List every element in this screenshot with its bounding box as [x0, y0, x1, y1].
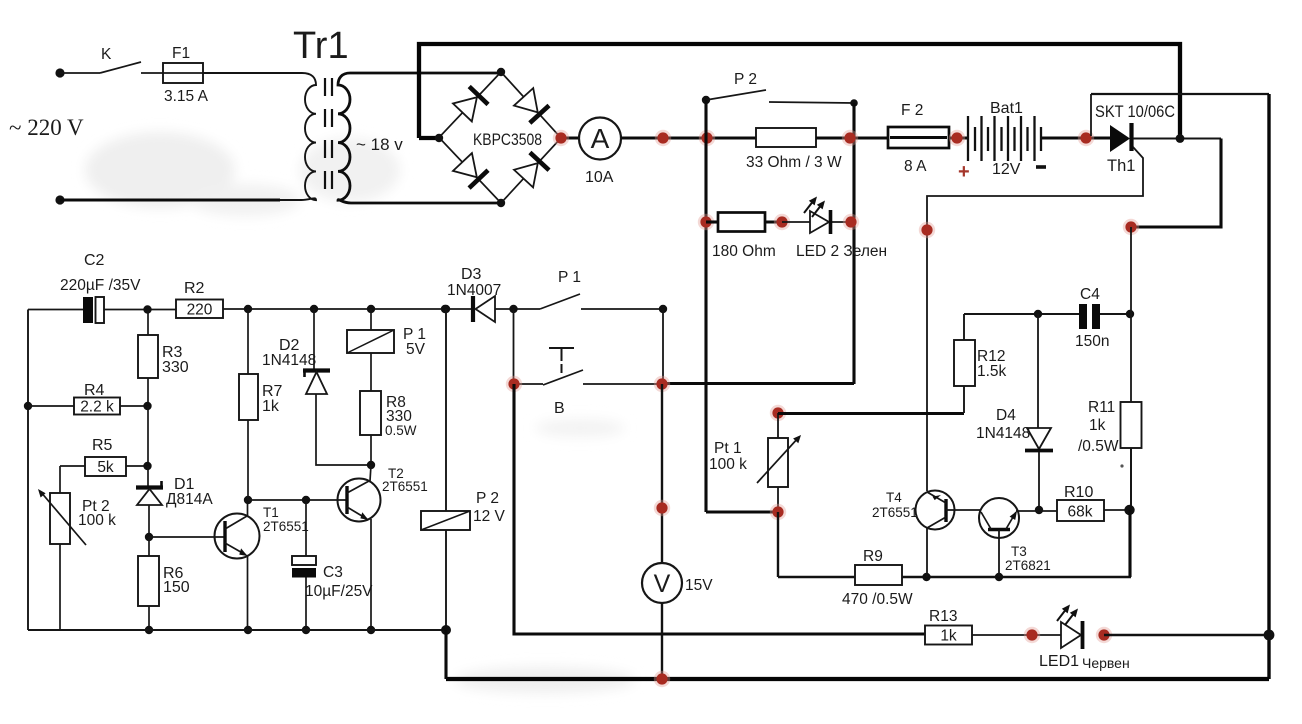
wire junction down to R9 line — [1128, 510, 1131, 577]
node D3 right — [509, 305, 517, 313]
pushbutton B — [514, 383, 543, 385]
svg-text:V: V — [654, 570, 671, 598]
svg-text:B: B — [554, 400, 565, 417]
svg-text:8 A: 8 A — [904, 158, 927, 175]
resistor 33 Ohm / 3 W — [756, 128, 816, 147]
node D4 bottom junction — [1035, 506, 1043, 514]
svg-text:~ 18 v: ~ 18 v — [356, 135, 403, 154]
node D3 left — [441, 305, 449, 313]
relay coil P2 12V — [445, 309, 447, 511]
svg-text:R11: R11 — [1088, 399, 1115, 416]
wire LED1 to right rail — [1104, 634, 1269, 636]
node rail to bottom bus — [441, 625, 451, 635]
node P1 right corner — [659, 305, 667, 313]
node junction (red) — [842, 130, 858, 146]
svg-text:5V: 5V — [406, 341, 426, 358]
wire ammeter to R 33ohm — [621, 136, 756, 139]
svg-text:/0.5W: /0.5W — [1078, 438, 1119, 455]
svg-text:1k: 1k — [1089, 417, 1106, 434]
voltmeter V 15V — [642, 563, 682, 603]
node loop end (red) — [1123, 219, 1139, 235]
svg-text:D3: D3 — [461, 266, 482, 283]
wire negative rail to bridge left — [419, 136, 438, 140]
transistor T1 2T6551 — [215, 514, 260, 559]
node wire (red) — [655, 130, 671, 146]
transistor T2 2T6551 — [338, 479, 381, 522]
svg-text:0.5W: 0.5W — [385, 423, 417, 438]
node B left (red) — [506, 376, 522, 392]
wire R13 to LED1 — [972, 634, 1061, 636]
svg-text:F1: F1 — [172, 45, 190, 62]
wire down to bottom bus — [444, 630, 447, 679]
switch P1 contact — [540, 294, 580, 309]
node R7 top — [244, 305, 252, 313]
bridge diode upper-right — [514, 88, 549, 123]
switch K — [100, 62, 141, 73]
capacitor C3 10uF/25V — [305, 500, 307, 556]
node gate wire (red) — [919, 222, 935, 238]
svg-text:SKT 10/06C: SKT 10/06C — [1095, 103, 1175, 121]
svg-text:1N4148: 1N4148 — [262, 352, 316, 369]
resistor R12 1.5k — [963, 386, 965, 413]
node C2/R2/R3 junction — [143, 305, 151, 313]
svg-text:R9: R9 — [863, 548, 883, 565]
svg-text:LED 2 Зелен: LED 2 Зелен — [796, 243, 887, 260]
svg-text:R2: R2 — [184, 280, 205, 297]
wire D3 node down to B — [513, 309, 515, 383]
wire bottom rail left block — [28, 629, 446, 631]
svg-text:150: 150 — [163, 579, 190, 596]
wire C4 right to node — [1100, 313, 1131, 315]
svg-text:10A: 10A — [585, 169, 614, 186]
wire voltmeter to bottom rail — [661, 603, 663, 679]
svg-text:10µF/25V: 10µF/25V — [305, 583, 373, 600]
wire top negative rail — [419, 44, 1180, 139]
node right rail junction — [1264, 630, 1275, 641]
transformer Tr1 secondary winding — [338, 73, 501, 203]
thyristor Th1 SKT 10/06C — [1110, 125, 1130, 152]
svg-text:F 2: F 2 — [901, 102, 923, 119]
wire left vertical rail — [27, 310, 29, 631]
switch P2 — [702, 96, 710, 104]
bridge diode lower-right — [514, 152, 549, 187]
node C4 right junction — [1126, 310, 1134, 318]
node LED1 left (red) — [1024, 627, 1040, 643]
wire red node down to C4 node — [1130, 227, 1132, 314]
relay coil P1 5V — [370, 309, 372, 330]
svg-text:1k: 1k — [940, 628, 957, 645]
svg-text:1k: 1k — [262, 398, 280, 415]
wire bridge plus to ammeter — [561, 136, 579, 139]
svg-text:330: 330 — [162, 359, 189, 376]
node voltmeter wire (red) — [654, 500, 670, 516]
svg-text:R4: R4 — [84, 382, 105, 399]
node R4 left — [24, 402, 32, 410]
svg-text:R5: R5 — [92, 437, 113, 454]
fuse F2 8A — [888, 127, 949, 148]
resistor R7 1k — [247, 309, 249, 374]
node T1 emitter bottom — [244, 626, 252, 634]
node P1 coil top — [367, 305, 375, 313]
zener diode D2 1N4148 — [313, 309, 315, 369]
svg-text:100 k: 100 k — [709, 456, 747, 473]
node R5/D1 junction — [143, 462, 151, 470]
svg-text:68k: 68k — [1068, 504, 1093, 521]
svg-text:2T6551: 2T6551 — [263, 519, 309, 534]
svg-text:1.5k: 1.5k — [977, 363, 1007, 380]
node D2/R8/T2 junction — [367, 461, 375, 469]
svg-text:180 Ohm: 180 Ohm — [712, 243, 776, 260]
node (red) — [774, 214, 790, 230]
fuse F1 3.15A — [163, 63, 203, 83]
wire down to R5 junction — [147, 406, 149, 466]
svg-text:220µF /35V: 220µF /35V — [60, 277, 141, 294]
node junction P2 branch (red) — [699, 130, 715, 146]
transistor T4 2T6551 — [916, 491, 955, 530]
wire vertical left branch — [704, 100, 707, 512]
zener diode D1 D814A — [147, 466, 149, 486]
svg-text:Д814А: Д814А — [166, 491, 213, 508]
svg-text:2T6821: 2T6821 — [1005, 558, 1051, 573]
svg-text:R13: R13 — [929, 608, 957, 625]
potentiometer Pt1 100k — [770, 405, 786, 421]
resistor R13 1k — [925, 626, 972, 645]
svg-text:5k: 5k — [97, 459, 114, 476]
resistor R10 68k — [1057, 500, 1104, 521]
resistor R6 150 — [148, 537, 150, 556]
node bridge left — [435, 134, 443, 142]
resistor R8 330 0.5W — [360, 391, 381, 435]
wire collector row to T2 base — [248, 499, 347, 501]
node bridge top — [497, 68, 505, 76]
svg-text:C2: C2 — [84, 252, 105, 269]
bridge diode upper-left — [453, 86, 488, 121]
node 180ohm branch left (red) — [698, 214, 714, 230]
svg-text:33 Ohm / 3 W: 33 Ohm / 3 W — [746, 154, 842, 171]
capacitor C4 150n — [1079, 304, 1087, 329]
svg-text:P 2: P 2 — [734, 71, 757, 88]
node D4 top junction — [1034, 310, 1042, 318]
capacitor C2 220uF/35V — [28, 309, 83, 311]
resistor R3 330 — [147, 310, 149, 336]
diode D3 1N4007 — [445, 308, 471, 310]
svg-text:LED1: LED1 — [1039, 653, 1079, 670]
diode D4 1N4148 — [1037, 314, 1039, 428]
svg-text:15V: 15V — [685, 577, 713, 594]
LED1 red — [1061, 622, 1081, 648]
svg-text:T3: T3 — [1011, 544, 1027, 559]
wire P2 branch to Pt1 bottom — [706, 510, 778, 513]
wire cathode loop down-left — [1131, 139, 1221, 228]
svg-text:470 /0.5W: 470 /0.5W — [842, 591, 913, 608]
wire node to LED2 — [782, 221, 851, 223]
svg-text:Pt 1: Pt 1 — [714, 440, 742, 457]
svg-text:Th1: Th1 — [1107, 157, 1135, 175]
battery Bat1 12V — [968, 116, 1041, 161]
node AC terminal bottom — [55, 195, 64, 204]
wire resistor to F2 — [816, 136, 888, 139]
svg-text:~ 220 V: ~ 220 V — [9, 115, 84, 140]
node battery minus (red) — [1078, 130, 1094, 146]
svg-text:A: A — [591, 123, 610, 154]
wire T1 base — [149, 536, 225, 538]
thyristor gate wire — [927, 147, 1143, 491]
potentiometer Pt2 100k — [59, 466, 61, 493]
resistor R2 220 — [176, 300, 223, 319]
svg-text:1N4148: 1N4148 — [976, 425, 1030, 442]
wire C4 row left — [964, 313, 1079, 315]
svg-text:12V: 12V — [992, 161, 1021, 178]
node P2 coil top — [442, 305, 450, 313]
svg-text:2.2 k: 2.2 k — [80, 399, 114, 416]
node bridge bottom — [497, 199, 505, 207]
resistor 180 Ohm — [718, 213, 765, 232]
wire battery to thyristor — [1041, 136, 1110, 139]
node C3 top junction — [302, 496, 310, 504]
svg-text:Tr1: Tr1 — [293, 25, 349, 67]
wire R9 to right — [902, 576, 1131, 578]
svg-text:R10: R10 — [1064, 484, 1093, 501]
wire anode bypass top — [1091, 93, 1269, 95]
svg-text:P 2: P 2 — [476, 490, 499, 507]
svg-text:2T6551: 2T6551 — [382, 479, 428, 494]
resistor R9 470/0.5W — [855, 565, 902, 585]
wire to resistor 180 Ohm — [706, 220, 718, 223]
ammeter A 10A — [579, 118, 621, 160]
node R3/R4 junction — [143, 402, 151, 410]
node R6 bottom — [145, 626, 153, 634]
wire right vertical rail — [1267, 94, 1270, 679]
resistor R5 5k — [60, 465, 85, 467]
wire Pt1 top to R12 — [778, 412, 964, 415]
svg-text:T4: T4 — [886, 490, 902, 505]
node T1 collector junction — [244, 496, 252, 504]
node R10 right junction — [1124, 505, 1134, 515]
wire bottom rail — [446, 677, 1269, 681]
wire rail R2 to D3 — [223, 308, 445, 310]
scan smudges background — [85, 132, 635, 693]
bridge diode lower-left — [453, 153, 488, 188]
wire AC bottom thick — [60, 198, 280, 201]
svg-text:D4: D4 — [996, 407, 1016, 424]
node AC terminal top — [55, 68, 64, 77]
node T4 collector junction — [922, 573, 930, 581]
wire switch to fuse F1 — [141, 72, 163, 74]
node bridge plus (red) — [553, 130, 569, 146]
svg-text:Bat1: Bat1 — [990, 100, 1023, 117]
node T2 emitter bottom — [367, 626, 375, 634]
node D2 top — [310, 305, 318, 313]
wire vertical right branch — [852, 103, 855, 384]
wire R10 right — [1104, 509, 1131, 511]
svg-text:2T6551: 2T6551 — [872, 505, 918, 520]
transformer core — [324, 78, 326, 199]
svg-text:150n: 150n — [1075, 333, 1109, 350]
transformer Tr1 primary winding — [203, 73, 316, 200]
svg-text:KBPC3508: KBPC3508 — [473, 131, 542, 149]
svg-text:Червен: Червен — [1082, 655, 1130, 671]
transistor T3 2T6821 — [979, 498, 1019, 538]
svg-text:C3: C3 — [323, 564, 343, 581]
svg-text:+: + — [958, 161, 970, 183]
node T3 base junction — [995, 573, 1003, 581]
svg-text:3.15 A: 3.15 A — [164, 88, 209, 105]
svg-text:220: 220 — [187, 302, 213, 319]
wire terminal to switch K — [60, 72, 100, 74]
node B right (red) — [654, 376, 670, 392]
wire thick box bottom — [662, 382, 854, 385]
wire voltmeter feed — [661, 384, 663, 563]
node C3 bottom — [302, 626, 310, 634]
svg-text:12 V: 12 V — [473, 508, 506, 525]
bridge rectifier KBPC3508 diamond — [439, 72, 561, 203]
svg-text:T1: T1 — [263, 505, 279, 520]
svg-text:K: K — [101, 46, 112, 63]
node LED1 right (red) — [1096, 627, 1112, 643]
svg-text:100 k: 100 k — [78, 512, 116, 529]
wire resistor to node — [765, 220, 782, 223]
node bottom rail (red) — [654, 671, 670, 687]
wire P1 node down — [662, 309, 664, 383]
resistor R11 1k /0.5W — [1130, 314, 1132, 402]
wire Pt1 bottom to R9 — [778, 512, 855, 577]
LED2 green — [810, 211, 829, 233]
resistor R4 2.2k — [28, 405, 74, 407]
scan artifact dot — [1120, 464, 1123, 467]
node D1/R6/T1 base junction — [145, 533, 153, 541]
wire fuse to battery — [949, 136, 968, 139]
svg-text:C4: C4 — [1080, 286, 1100, 303]
node junction (red) — [949, 130, 965, 146]
node cathode junction — [1176, 134, 1185, 143]
wire B-left down to LED1 feed — [514, 384, 925, 634]
svg-text:1N4007: 1N4007 — [447, 282, 501, 299]
node LED2 right (red) — [843, 214, 859, 230]
svg-text:P 1: P 1 — [558, 269, 581, 286]
wire thyristor cathode to node — [1133, 138, 1221, 140]
